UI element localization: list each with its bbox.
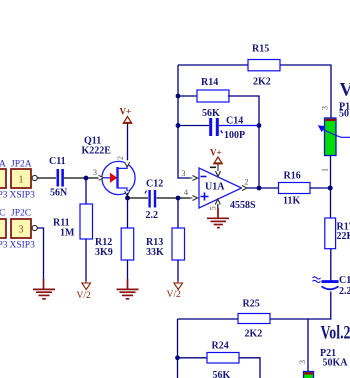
svg-text:V+: V+ xyxy=(210,148,222,158)
capacitor C15 electrolytic xyxy=(313,277,339,290)
svg-text:R16: R16 xyxy=(284,171,301,182)
resistor R15 xyxy=(248,60,280,71)
wire R14 right to vertical xyxy=(228,96,259,188)
wire JP2C to ground xyxy=(37,228,43,280)
svg-text:R14: R14 xyxy=(201,77,218,88)
pin 4 arrow xyxy=(190,196,199,201)
svg-text:22K: 22K xyxy=(337,231,350,242)
node dot pin4/R13 xyxy=(176,196,181,201)
pin 5 arrow into op-amp bottom xyxy=(215,199,220,209)
wire R24 right corner down xyxy=(239,358,260,378)
node dot output/feedback xyxy=(257,186,262,191)
svg-text:C11: C11 xyxy=(49,156,66,167)
svg-text:P3: P3 xyxy=(0,191,8,201)
wire top feedback from bus to R15 xyxy=(178,64,248,66)
potentiometer P11 body xyxy=(325,118,337,156)
wire R11 bottom xyxy=(85,239,87,281)
wire R13 bottom xyxy=(177,260,179,281)
svg-text:56K: 56K xyxy=(213,370,231,378)
svg-text:Vol.2: Vol.2 xyxy=(321,324,350,344)
wire C11 to gate xyxy=(64,177,99,179)
svg-text:V/2: V/2 xyxy=(77,291,92,301)
svg-text:C: C xyxy=(0,209,5,219)
node dot source/C12/R12 xyxy=(125,196,130,201)
svg-text:4558S: 4558S xyxy=(230,200,256,211)
svg-text:V: V xyxy=(340,81,350,101)
svg-text:2.2: 2.2 xyxy=(146,210,159,221)
connector JP2A body xyxy=(11,169,31,188)
wire left bus (pin3 net) xyxy=(178,65,190,178)
wire R17 to C15 xyxy=(330,249,332,281)
wire R16 right to pot node xyxy=(310,187,331,189)
wire R13 top xyxy=(177,198,179,228)
pin 3 arrow xyxy=(190,176,199,181)
svg-text:C14: C14 xyxy=(226,115,243,126)
transistor Q11 xyxy=(102,161,135,194)
capacitor C14 xyxy=(211,118,259,136)
svg-text:JP2A: JP2A xyxy=(11,160,32,170)
svg-text:1: 1 xyxy=(19,175,24,186)
op-amp U1A xyxy=(199,168,242,208)
resistor R24 xyxy=(207,353,239,364)
svg-text:V/2: V/2 xyxy=(167,290,182,300)
pin 2 output arrow xyxy=(241,186,247,191)
ground (U1A) xyxy=(207,209,229,228)
svg-text:K222E: K222E xyxy=(82,146,112,157)
wire R14 left xyxy=(178,95,197,97)
svg-text:3: 3 xyxy=(321,106,330,110)
wire R12 top xyxy=(127,198,129,228)
svg-text:33K: 33K xyxy=(146,247,164,258)
wire node to C12 xyxy=(128,197,149,199)
svg-text:V+: V+ xyxy=(120,107,132,117)
node dot bus/C14 xyxy=(176,123,181,128)
svg-text:JP2C: JP2C xyxy=(11,209,31,219)
node dot R16/pot/R17 xyxy=(328,186,333,191)
wire output to R16 xyxy=(247,187,279,189)
pin circle JP2C xyxy=(32,225,37,230)
node dot C14/vertical xyxy=(257,123,262,128)
wire source to C12 node xyxy=(127,193,129,198)
ground (R12) xyxy=(117,279,139,299)
capacitor C12 xyxy=(145,190,155,208)
pin 8 stem and arrow into op-amp top xyxy=(216,164,221,177)
svg-text:3: 3 xyxy=(298,360,307,364)
resistor R12 xyxy=(121,228,134,260)
svg-text:U1A: U1A xyxy=(205,182,225,193)
resistor R25 xyxy=(238,314,270,324)
resistor R11 xyxy=(80,204,93,239)
svg-text:2: 2 xyxy=(245,178,249,187)
resistor R17 xyxy=(325,218,336,249)
node dot C11/R11 xyxy=(84,176,89,181)
resistor R13 xyxy=(172,228,185,260)
wire JP2A to C11 xyxy=(37,177,56,179)
svg-text:3: 3 xyxy=(182,169,186,178)
svg-text:50KA: 50KA xyxy=(323,358,349,369)
svg-text:R24: R24 xyxy=(212,341,229,352)
wire R15 right to corner xyxy=(280,65,331,118)
svg-text:C1: C1 xyxy=(339,275,350,286)
svg-text:56N: 56N xyxy=(50,188,68,199)
svg-text:XSIP3: XSIP3 xyxy=(10,241,36,251)
power V/2 (R11) xyxy=(82,281,91,290)
svg-text:3: 3 xyxy=(19,225,24,236)
node dot bus/R14 xyxy=(176,94,181,99)
wire R12 bottom xyxy=(127,260,129,280)
capacitor C11 xyxy=(58,169,63,187)
svg-text:P3: P3 xyxy=(0,241,8,251)
power V+ (Q11) xyxy=(123,117,133,124)
svg-text:1M: 1M xyxy=(60,228,75,239)
pin 8 dash mark xyxy=(210,166,216,168)
wire R25 left bus corner xyxy=(177,319,179,378)
svg-text:50: 50 xyxy=(339,108,349,119)
wire C12 to pin4 node xyxy=(157,197,191,199)
connector JP2C body xyxy=(11,219,31,238)
svg-text:100P: 100P xyxy=(224,130,245,141)
wire pin5 to ground xyxy=(217,204,219,209)
svg-text:3: 3 xyxy=(93,168,97,177)
wire bus to R25 xyxy=(178,318,239,320)
svg-text:2: 2 xyxy=(116,156,125,160)
wire R11 top xyxy=(85,178,87,204)
svg-text:XSIP3: XSIP3 xyxy=(10,191,36,201)
wire C14 left xyxy=(178,125,209,127)
svg-text:3K9: 3K9 xyxy=(95,247,113,258)
plus sign (pin4 input) xyxy=(201,193,209,201)
svg-text:5: 5 xyxy=(209,206,218,210)
wire R25 right to pot P21 xyxy=(270,319,308,372)
wire C15 bottom corner to pot P21 branch xyxy=(308,292,331,320)
pin chevron Q11 source xyxy=(125,191,130,196)
pin chevron Q11 gate xyxy=(99,175,104,180)
resistor R16 xyxy=(279,183,311,194)
svg-text:C12: C12 xyxy=(146,179,163,190)
wire pot bottom to node xyxy=(330,156,332,188)
svg-text:11K: 11K xyxy=(283,196,300,207)
svg-text:1: 1 xyxy=(321,168,330,172)
node dot bus/R24 xyxy=(175,355,180,360)
minus sign (pin3 input) xyxy=(201,176,207,178)
wire bus to R24 xyxy=(178,357,208,359)
svg-text:2K2: 2K2 xyxy=(253,77,271,88)
pin circle JP2A xyxy=(32,175,37,180)
resistor R14 xyxy=(197,90,229,102)
wire node to R17 xyxy=(330,188,332,218)
pot wiper arrow xyxy=(318,125,350,137)
svg-text:R15: R15 xyxy=(252,44,269,55)
svg-text:2K2: 2K2 xyxy=(245,329,263,340)
power V+ (U1A) xyxy=(213,157,223,164)
svg-text:2.2: 2.2 xyxy=(339,286,350,297)
wire drain to V+ xyxy=(127,124,129,161)
svg-text:56K: 56K xyxy=(202,108,220,119)
svg-text:4: 4 xyxy=(184,188,188,197)
pin chevron Q11 drain xyxy=(125,162,130,167)
potentiometer P21 body (cut) xyxy=(304,372,314,378)
power V/2 (R13) xyxy=(174,281,183,290)
ground (JP2C) xyxy=(33,279,55,299)
svg-text:R25: R25 xyxy=(243,299,260,310)
svg-text:A: A xyxy=(0,160,6,170)
